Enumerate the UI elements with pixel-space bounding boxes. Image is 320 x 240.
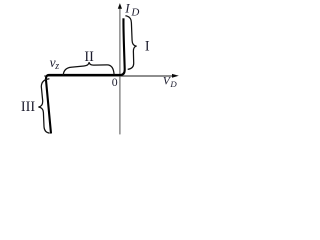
svg-text:I: I [124, 0, 130, 15]
svg-text:D: D [130, 7, 139, 19]
diode I-V curve (breakdown, reverse flat, forward rise) [46, 18, 125, 133]
I_D axis (vertical) [119, 8, 121, 134]
I_D axis arrowhead [118, 3, 122, 9]
svg-text:z: z [54, 61, 59, 72]
brace I (right curly brace) [125, 16, 136, 70]
V_D axis (horizontal) [44, 75, 173, 77]
svg-text:D: D [169, 79, 177, 89]
svg-text:I: I [145, 38, 150, 54]
V_D axis arrowhead [172, 74, 179, 78]
brace III (left curly brace) [38, 79, 49, 133]
svg-text:III: III [21, 99, 35, 115]
svg-text:II: II [84, 49, 94, 65]
svg-text:0: 0 [112, 75, 118, 89]
brace II (horizontal over-brace) [63, 62, 114, 75]
